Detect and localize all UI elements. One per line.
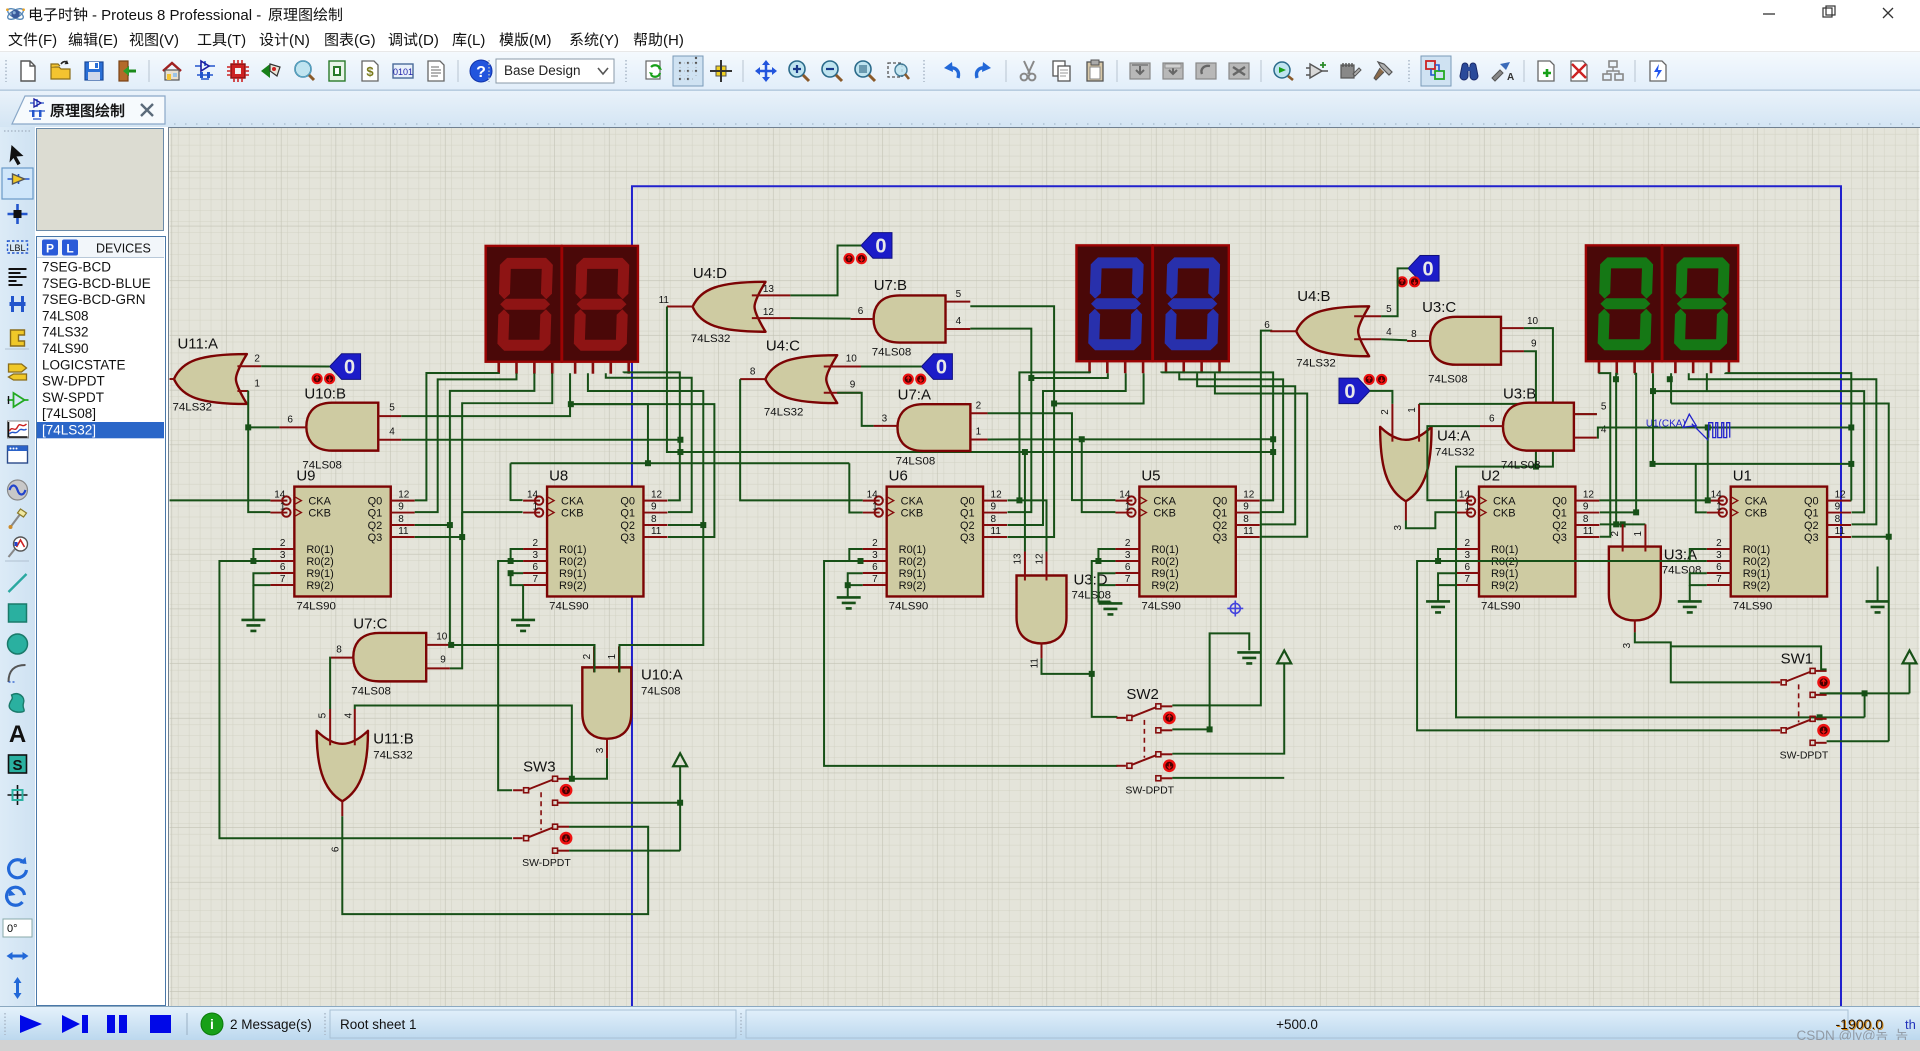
svg-text:14: 14 <box>1459 490 1471 501</box>
svg-text:+500.0: +500.0 <box>1276 1017 1318 1032</box>
svg-text:6: 6 <box>1489 414 1495 425</box>
logic probe indicators above U7:B <box>844 254 866 263</box>
svg-text:74LS90: 74LS90 <box>1733 600 1773 612</box>
svg-text:U10:B: U10:B <box>304 386 346 403</box>
svg-text:14: 14 <box>274 490 286 501</box>
svg-text:5: 5 <box>956 289 962 300</box>
svg-text:0: 0 <box>1344 381 1355 403</box>
svg-text:13: 13 <box>763 284 775 295</box>
svg-text:U10:A: U10:A <box>641 666 683 683</box>
svg-text:9: 9 <box>850 380 856 391</box>
svg-text:CKB: CKB <box>1153 508 1176 520</box>
svg-text:9: 9 <box>440 654 446 665</box>
svg-text:U4:B: U4:B <box>1297 288 1330 305</box>
svg-text:CKB: CKB <box>901 508 924 520</box>
svg-text:8: 8 <box>651 514 657 525</box>
svg-text:4: 4 <box>343 712 354 718</box>
and-gate U3:C <box>1407 299 1538 386</box>
svg-text:SW2: SW2 <box>1126 686 1158 703</box>
wire U2 R9 bracket to ground <box>1438 573 1455 600</box>
wire U4:B.5 to flag <box>1381 268 1408 316</box>
svg-text:2: 2 <box>1380 409 1391 415</box>
svg-text:1: 1 <box>280 502 286 513</box>
wire U7:A.2 to U5.CKA <box>988 413 1116 500</box>
wire U10:B.4 long net <box>401 437 683 443</box>
svg-text:Q2: Q2 <box>1213 520 1228 532</box>
svg-text:CKA: CKA <box>308 496 331 508</box>
svg-text:SW-DPDT: SW-DPDT <box>1125 786 1174 797</box>
svg-text:11: 11 <box>398 526 409 537</box>
svg-text:U3:B: U3:B <box>1503 386 1536 403</box>
svg-text:6: 6 <box>330 846 341 852</box>
wire U9.CKA from canvas edge <box>169 499 270 501</box>
wire U6 R0 bracket to SW2 bottom <box>824 549 1117 766</box>
svg-text:74LS32: 74LS32 <box>42 325 89 340</box>
svg-text:7: 7 <box>1464 574 1470 585</box>
svg-text:2: 2 <box>254 354 260 365</box>
wire SW2 top throw2 return <box>1172 633 1249 732</box>
svg-text:14: 14 <box>1711 490 1723 501</box>
7-seg display green units digit <box>1662 245 1738 373</box>
svg-text:10: 10 <box>436 631 448 642</box>
svg-text:7: 7 <box>872 574 878 585</box>
wire U7:A.1 long net <box>988 436 1277 442</box>
svg-text:0: 0 <box>936 357 947 379</box>
wire U3:D.11 down <box>1042 658 1092 673</box>
wire display red pin5 / U10:B.5 net <box>401 373 574 416</box>
ground under U2 <box>1426 601 1450 612</box>
logicstate 0 flag above U7:B <box>861 233 892 259</box>
svg-text:SW1: SW1 <box>1781 650 1813 667</box>
svg-text:R0(2): R0(2) <box>306 556 333 568</box>
svg-text:9: 9 <box>1531 339 1537 350</box>
svg-text:SW-SPDT: SW-SPDT <box>42 390 104 405</box>
svg-text:9: 9 <box>1835 502 1841 513</box>
svg-text:12: 12 <box>1583 490 1595 501</box>
svg-text:74LS90: 74LS90 <box>42 341 89 356</box>
svg-text:74LS08: 74LS08 <box>42 308 89 323</box>
svg-text:R9(1): R9(1) <box>306 568 333 580</box>
svg-text:1: 1 <box>1633 531 1644 537</box>
svg-text:14: 14 <box>1119 490 1131 501</box>
wire flag to U4:A.2 <box>1370 391 1392 404</box>
svg-text:3: 3 <box>1622 642 1633 648</box>
wire U8.CKA feed <box>511 404 850 500</box>
svg-text:CKA: CKA <box>901 496 924 508</box>
wires U6.Q to blue display tens <box>1008 372 1144 546</box>
svg-text:8: 8 <box>1583 514 1589 525</box>
svg-text:1: 1 <box>533 502 539 513</box>
svg-text:12: 12 <box>651 490 663 501</box>
svg-text:Q1: Q1 <box>960 508 975 520</box>
svg-text:R0(1): R0(1) <box>306 544 333 556</box>
svg-text:SW3: SW3 <box>523 758 555 775</box>
svg-text:74LS32: 74LS32 <box>1296 358 1336 370</box>
svg-text:7: 7 <box>1716 574 1722 585</box>
svg-text:(N): (N) <box>289 32 310 49</box>
svg-text:A: A <box>9 721 26 748</box>
wire U5.CKB feed <box>1082 439 1116 512</box>
wire SW3 bottom throw1 <box>342 816 648 914</box>
svg-text:74LS32: 74LS32 <box>1435 447 1475 459</box>
svg-text:6: 6 <box>858 306 864 317</box>
logicstate 0 flag near U11:A <box>330 354 361 380</box>
svg-text:Q1: Q1 <box>368 508 383 520</box>
svg-text:CKA: CKA <box>561 496 584 508</box>
wire U11:A.2 to flag <box>261 365 329 367</box>
svg-text:1: 1 <box>1125 502 1131 513</box>
svg-text:U8: U8 <box>549 468 568 485</box>
svg-text:CKB: CKB <box>561 508 584 520</box>
svg-text:(T): (T) <box>227 32 246 49</box>
svg-text:0101: 0101 <box>393 67 413 77</box>
svg-text:7: 7 <box>280 574 286 585</box>
logic probe indicators near U11:A <box>313 374 335 383</box>
svg-text:U6: U6 <box>889 468 908 485</box>
svg-text:DEVICES: DEVICES <box>96 242 151 256</box>
wire U7:B.4 down <box>970 329 1034 381</box>
svg-text:4: 4 <box>389 427 395 438</box>
counter U8 <box>523 468 667 613</box>
svg-text:6: 6 <box>1464 562 1470 573</box>
svg-text:U5: U5 <box>1141 468 1160 485</box>
svg-text:(Y): (Y) <box>599 32 619 49</box>
svg-text:2: 2 <box>1716 538 1722 549</box>
power arrow near SW2 <box>1277 650 1291 663</box>
counter U2 <box>1455 468 1599 613</box>
svg-text:12: 12 <box>398 490 410 501</box>
svg-text:SW-DPDT: SW-DPDT <box>522 858 571 869</box>
svg-text:CKB: CKB <box>1493 508 1516 520</box>
svg-text:U11:B: U11:B <box>373 730 414 747</box>
wire U6 R9 bracket to ground <box>845 573 863 597</box>
wire U9 R0 bracket to SW3 <box>219 549 512 838</box>
svg-text:L: L <box>66 242 73 256</box>
7-seg display blue units digit <box>1153 245 1229 373</box>
svg-text:R0(1): R0(1) <box>899 544 926 556</box>
svg-text:74LS32: 74LS32 <box>172 402 212 414</box>
svg-text:U1(CKA): U1(CKA) <box>1646 419 1686 430</box>
svg-text:5: 5 <box>317 712 328 718</box>
svg-text:(D): (D) <box>418 32 439 49</box>
7-seg display red tens digit <box>486 246 562 374</box>
svg-text:74LS90: 74LS90 <box>1141 600 1181 612</box>
svg-text:R9(2): R9(2) <box>1151 580 1178 592</box>
svg-text:6: 6 <box>1125 562 1131 573</box>
svg-text:Q0: Q0 <box>620 496 635 508</box>
svg-text:8: 8 <box>1835 514 1841 525</box>
svg-text:4: 4 <box>956 316 962 327</box>
svg-text:U4:D: U4:D <box>693 265 727 282</box>
logicstate 0 flag near U7:A <box>921 354 952 380</box>
wire SW3 bottom throw2 <box>569 850 680 852</box>
svg-text:10: 10 <box>1527 316 1539 327</box>
ground under U9 <box>241 620 265 631</box>
svg-text:74LS32: 74LS32 <box>373 749 413 761</box>
svg-text:0°: 0° <box>7 923 18 935</box>
svg-text:6: 6 <box>287 415 293 426</box>
svg-text:74LS08: 74LS08 <box>1662 564 1702 576</box>
svg-text:S: S <box>12 757 22 774</box>
wire U3:C.10 <box>1456 328 1553 561</box>
svg-text:11: 11 <box>651 526 662 537</box>
svg-text:3: 3 <box>1125 550 1131 561</box>
wire U3:D.12 from U6.Q0 <box>1045 500 1047 551</box>
svg-text:1: 1 <box>1716 502 1722 513</box>
or-gate U11:B <box>317 709 414 852</box>
counter U9 <box>270 468 414 613</box>
svg-text:U3:C: U3:C <box>1422 299 1456 316</box>
svg-text:14: 14 <box>527 490 539 501</box>
wires U5.Q to blue display units <box>1161 372 1307 536</box>
wire CKB line <box>1650 461 1855 512</box>
or-gate U4:D <box>659 265 791 345</box>
wire SW3 top throw2 <box>569 800 683 806</box>
wires U9.Q to red display tens <box>415 373 553 537</box>
wire U10:A.3 to SW3 throw <box>569 758 607 781</box>
svg-text:6: 6 <box>533 562 539 573</box>
svg-text:U7:C: U7:C <box>353 615 387 632</box>
svg-text:74LS90: 74LS90 <box>296 600 336 612</box>
svg-text:8: 8 <box>991 514 997 525</box>
ground under U1 <box>1678 601 1702 612</box>
svg-text:Q3: Q3 <box>960 532 975 544</box>
svg-text:74LS08: 74LS08 <box>872 347 912 359</box>
svg-text:U7:A: U7:A <box>898 387 931 404</box>
7-seg display blue tens digit <box>1076 245 1152 373</box>
svg-text:Q1: Q1 <box>1213 508 1228 520</box>
svg-text:Base Design: Base Design <box>504 63 581 78</box>
and-gate U7:A <box>874 387 988 468</box>
svg-text:1: 1 <box>607 653 618 659</box>
gate U10:A <box>582 646 683 758</box>
svg-text:Q2: Q2 <box>620 520 635 532</box>
wire SW2 top throw1 to U4:B.6 <box>1172 331 1272 706</box>
svg-text:U4:A: U4:A <box>1437 428 1470 445</box>
svg-text:(H): (H) <box>663 32 684 49</box>
svg-text:R9(1): R9(1) <box>1743 568 1770 580</box>
or-gate U11:A <box>169 336 261 414</box>
wire SW1 top throw1 return <box>1671 646 1827 669</box>
svg-text:5: 5 <box>1386 304 1392 315</box>
wire U6.CKB feed <box>849 463 862 512</box>
svg-text:2: 2 <box>280 538 286 549</box>
svg-text:8: 8 <box>398 514 404 525</box>
svg-text:2 Message(s): 2 Message(s) <box>230 1017 312 1032</box>
svg-text:74LS08: 74LS08 <box>641 685 681 697</box>
svg-text:Q2: Q2 <box>1804 520 1819 532</box>
wire U3:B.6 to U2.CKA <box>1427 426 1480 500</box>
svg-text:Q1: Q1 <box>620 508 635 520</box>
svg-text:11: 11 <box>659 295 670 306</box>
ground near SW2 <box>1237 652 1261 663</box>
svg-text:7SEG-BCD-BLUE: 7SEG-BCD-BLUE <box>42 276 151 291</box>
svg-text:10: 10 <box>846 354 858 365</box>
wires U1.Q wrap to green display units <box>1613 373 1892 742</box>
svg-text:1: 1 <box>872 502 878 513</box>
svg-text:Q3: Q3 <box>368 532 383 544</box>
switch SW1 <box>1771 650 1829 761</box>
svg-text:R0(1): R0(1) <box>1743 544 1770 556</box>
svg-text:R9(1): R9(1) <box>559 568 586 580</box>
svg-text:P: P <box>46 242 54 256</box>
wire U3:A.3 to SW1 common <box>1635 632 1771 682</box>
logic probe indicators near U7:A <box>904 375 926 384</box>
svg-text:i: i <box>210 1016 214 1032</box>
svg-text:12: 12 <box>1035 553 1046 565</box>
logicstate 0 flag above U3:C <box>1408 256 1439 282</box>
svg-text:Q3: Q3 <box>1213 532 1228 544</box>
svg-text:11: 11 <box>1030 658 1041 669</box>
svg-text:7: 7 <box>1125 574 1131 585</box>
svg-text:U4:C: U4:C <box>766 338 800 355</box>
svg-text:7: 7 <box>533 574 539 585</box>
svg-text:11: 11 <box>1243 526 1254 537</box>
svg-text:11: 11 <box>1835 526 1846 537</box>
wire U9.Q3 to U8.CKB <box>462 512 522 537</box>
wire U4:D.13 to flag <box>790 245 861 295</box>
ground near SW1 <box>1866 567 1890 613</box>
counter U5 <box>1115 468 1259 613</box>
svg-text:74LS08: 74LS08 <box>896 456 936 468</box>
svg-text:[74LS08]: [74LS08] <box>42 406 96 421</box>
wire SW1 top throw2 <box>1827 692 1865 694</box>
wire U8 R9 bracket to ground <box>508 570 523 620</box>
svg-text:12: 12 <box>1835 490 1847 501</box>
svg-text:12: 12 <box>763 307 775 318</box>
svg-text:U1: U1 <box>1733 468 1752 485</box>
ground under U5 <box>1098 603 1122 614</box>
svg-text:R9(1): R9(1) <box>899 568 926 580</box>
7-seg display green tens digit <box>1586 245 1662 373</box>
svg-text:(L): (L) <box>467 32 485 49</box>
svg-text:U11:A: U11:A <box>177 336 218 353</box>
svg-text:Q1: Q1 <box>1552 508 1567 520</box>
svg-text:R0(1): R0(1) <box>1491 544 1518 556</box>
wire U11:A.1 / U10:B.6 / U9.CKB net <box>245 391 279 512</box>
wire U7:C.8 to U11:B.5 <box>329 658 332 709</box>
svg-text:Q3: Q3 <box>1804 532 1819 544</box>
crosshair marker <box>1227 600 1243 616</box>
wire U3:D.13 from long net <box>1024 452 1026 551</box>
svg-text:6: 6 <box>1716 562 1722 573</box>
probe U1(CKA) <box>1646 414 1708 440</box>
svg-text:8: 8 <box>1243 514 1249 525</box>
svg-text:9: 9 <box>991 502 997 513</box>
svg-text:7SEG-BCD-GRN: 7SEG-BCD-GRN <box>42 292 146 307</box>
counter U6 <box>863 468 1007 613</box>
switch SW3 <box>513 758 571 869</box>
svg-text:5: 5 <box>389 403 395 414</box>
svg-text:74LS90: 74LS90 <box>1481 600 1521 612</box>
svg-text:Q0: Q0 <box>960 496 975 508</box>
svg-text:Root sheet 1: Root sheet 1 <box>340 1017 417 1032</box>
svg-text:3: 3 <box>1716 550 1722 561</box>
svg-text:(M): (M) <box>529 32 552 49</box>
svg-text:3: 3 <box>533 550 539 561</box>
logic probe indicators above U3:C <box>1397 277 1419 286</box>
svg-text:1: 1 <box>254 379 260 390</box>
svg-text:74LS32: 74LS32 <box>691 333 731 345</box>
logicstate 0 flag near U4:A <box>1339 378 1370 404</box>
svg-text:Q0: Q0 <box>1552 496 1567 508</box>
svg-text:Q0: Q0 <box>1804 496 1819 508</box>
wires U2.Q to green display tens <box>1599 373 1710 537</box>
svg-text:9: 9 <box>1243 502 1249 513</box>
svg-text:R9(2): R9(2) <box>1491 580 1518 592</box>
svg-text:$: $ <box>366 64 374 79</box>
or-gate U4:A <box>1380 404 1474 531</box>
svg-text:R0(2): R0(2) <box>1743 556 1770 568</box>
wire U4:A.1 to U3:B.5 <box>1419 404 1597 414</box>
svg-text:1: 1 <box>1407 407 1418 413</box>
wire U1(CKA) net <box>1597 424 1854 500</box>
svg-text:9: 9 <box>1583 502 1589 513</box>
svg-text:R0(2): R0(2) <box>559 556 586 568</box>
svg-text:3: 3 <box>1464 550 1470 561</box>
svg-text:0: 0 <box>1423 258 1434 280</box>
svg-text:CKA: CKA <box>1493 496 1516 508</box>
svg-text:SW-DPDT: SW-DPDT <box>1780 750 1829 761</box>
wire U3:C.9 <box>1524 351 1536 466</box>
svg-text:R9(2): R9(2) <box>559 580 586 592</box>
svg-text:CKB: CKB <box>1745 508 1768 520</box>
svg-text:(V): (V) <box>159 32 179 49</box>
svg-text:Q2: Q2 <box>368 520 383 532</box>
power arrow near SW3 <box>673 753 687 850</box>
svg-text:2: 2 <box>872 538 878 549</box>
svg-text:R0(1): R0(1) <box>1151 544 1178 556</box>
or-gate U4:C <box>740 338 861 419</box>
wire U9.Q3 to U7:C.9 <box>450 534 465 668</box>
svg-text:LOGICSTATE: LOGICSTATE <box>42 357 126 372</box>
power arrow near SW1 <box>1903 650 1917 663</box>
wire U1 R0 bracket to SW1 throws <box>1456 549 1909 720</box>
svg-text:2: 2 <box>582 653 593 659</box>
svg-text:R9(1): R9(1) <box>1491 568 1518 580</box>
wire U8 R0 bracket to SW3 top <box>498 549 523 790</box>
wire U2 R0 bracket to SW1 bottom <box>1417 549 1771 730</box>
svg-text:74LS08: 74LS08 <box>1501 460 1541 472</box>
svg-text:8: 8 <box>750 367 756 378</box>
svg-text:CKA: CKA <box>1745 496 1768 508</box>
svg-text:Q3: Q3 <box>1552 532 1567 544</box>
counter U1 <box>1707 468 1851 613</box>
wires U8.Q to red display units <box>571 372 715 537</box>
svg-text:2: 2 <box>1125 538 1131 549</box>
svg-text:?: ? <box>476 64 486 81</box>
wire U5 R0 bracket to SW2 top <box>1089 549 1118 717</box>
svg-text:Q2: Q2 <box>960 520 975 532</box>
svg-text:Q1: Q1 <box>1804 508 1819 520</box>
svg-text:7SEG-BCD: 7SEG-BCD <box>42 260 111 275</box>
svg-text:6: 6 <box>280 562 286 573</box>
wire U4:A.3 to U2.CKB <box>1406 512 1455 528</box>
switch SW2 <box>1116 686 1174 797</box>
svg-text:CKB: CKB <box>308 508 331 520</box>
svg-text:3: 3 <box>882 414 888 425</box>
wire U11:B.4 to SW3 throw <box>355 706 572 779</box>
wire U4:D.11 long net <box>667 306 1276 455</box>
wire SW2 bottom throw2 <box>1172 777 1284 779</box>
clock waveform glyph <box>1709 423 1730 438</box>
svg-text:2: 2 <box>976 401 982 412</box>
svg-text:SW-DPDT: SW-DPDT <box>42 374 105 389</box>
svg-text:8: 8 <box>1411 329 1417 340</box>
svg-text:74LS08: 74LS08 <box>1428 374 1468 386</box>
svg-text:R9(2): R9(2) <box>306 580 333 592</box>
svg-text:6: 6 <box>1264 320 1270 331</box>
